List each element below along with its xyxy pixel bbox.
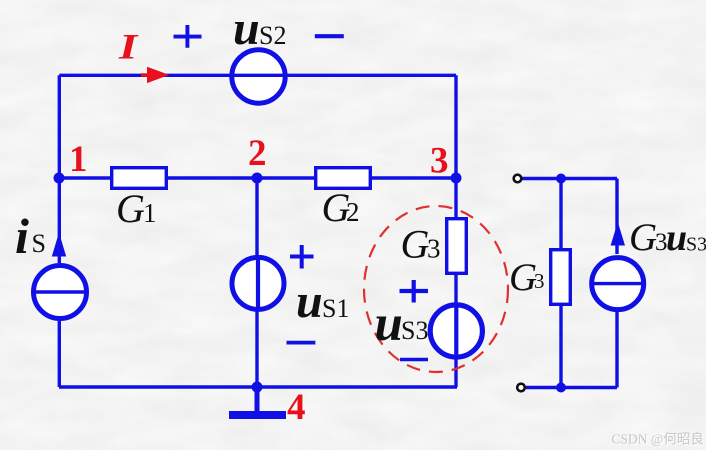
svg-text:3: 3 [534,269,545,293]
svg-text:u: u [296,275,323,328]
svg-text:4: 4 [287,387,306,428]
svg-text:S1: S1 [322,294,349,323]
svg-text:G: G [401,222,430,267]
svg-text:2: 2 [248,133,267,174]
svg-text:u: u [666,217,687,259]
svg-text:3: 3 [427,234,441,264]
svg-text:G: G [509,256,537,299]
svg-text:S2: S2 [259,21,286,50]
svg-text:S3: S3 [686,234,706,256]
svg-text:u: u [233,2,260,55]
svg-text:3: 3 [430,141,449,182]
svg-text:S: S [32,229,46,258]
svg-text:u: u [375,296,403,352]
svg-text:I: I [118,27,139,67]
svg-text:i: i [15,208,29,264]
svg-text:1: 1 [143,198,157,228]
svg-text:2: 2 [346,197,360,227]
svg-text:CSDN @何昭良: CSDN @何昭良 [612,432,704,447]
svg-text:G: G [629,216,657,259]
svg-text:G: G [116,186,145,231]
svg-text:S3: S3 [401,316,428,345]
svg-text:1: 1 [69,139,88,180]
